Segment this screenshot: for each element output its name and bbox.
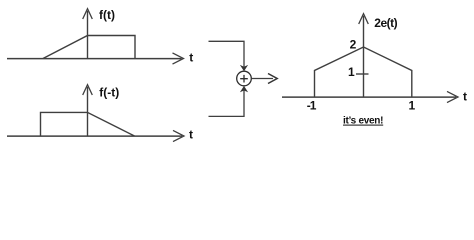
t-axis arrowhead (top-left) — [173, 53, 184, 64]
svg-text:1: 1 — [348, 65, 355, 79]
arrowhead into summer top — [240, 65, 248, 71]
wire from f(t) to summer — [209, 41, 245, 67]
t-axis arrowhead (bottom-left) — [173, 130, 184, 141]
svg-text:1: 1 — [409, 99, 416, 113]
summing junction circle — [237, 71, 252, 86]
t-axis arrowhead (right) — [447, 91, 458, 102]
svg-text:2e(t): 2e(t) — [374, 16, 397, 30]
svg-text:t: t — [463, 90, 467, 104]
plus sign in summer — [240, 75, 248, 83]
svg-text:2: 2 — [350, 38, 357, 52]
svg-text:f(t): f(t) — [99, 8, 115, 22]
f(t) signal: ramp then rectangle — [43, 36, 135, 59]
svg-text:it’s even!: it’s even! — [343, 116, 383, 127]
svg-text:f(-t): f(-t) — [99, 85, 119, 99]
output arrowhead — [268, 74, 277, 84]
svg-text:-1: -1 — [307, 98, 317, 112]
wire from f(-t) to summer — [209, 90, 245, 116]
vertical axis arrowhead (bottom-left) — [83, 85, 93, 95]
vertical axis (bottom-left f(-t) plot) — [87, 87, 89, 136]
t-axis (right 2e(t) plot) — [282, 96, 456, 98]
vertical axis (top-left f(t) plot) — [87, 11, 89, 59]
t-axis (top-left f(t) plot) — [7, 58, 182, 60]
vertical axis (right 2e(t) plot) — [363, 16, 365, 97]
output wire from summer — [251, 78, 273, 80]
vertical axis arrowhead (right) — [359, 14, 369, 24]
vertical axis arrowhead (top-left) — [83, 9, 93, 19]
arrowhead into summer bottom — [240, 86, 248, 92]
svg-text:t: t — [189, 128, 193, 142]
f(-t) signal: rectangle then ramp down — [41, 112, 135, 136]
t-axis (bottom-left f(-t) plot) — [7, 135, 182, 137]
2e(t) signal: trapezoid tent — [315, 47, 412, 97]
svg-text:t: t — [189, 51, 193, 65]
tick at height 1 — [356, 73, 369, 75]
